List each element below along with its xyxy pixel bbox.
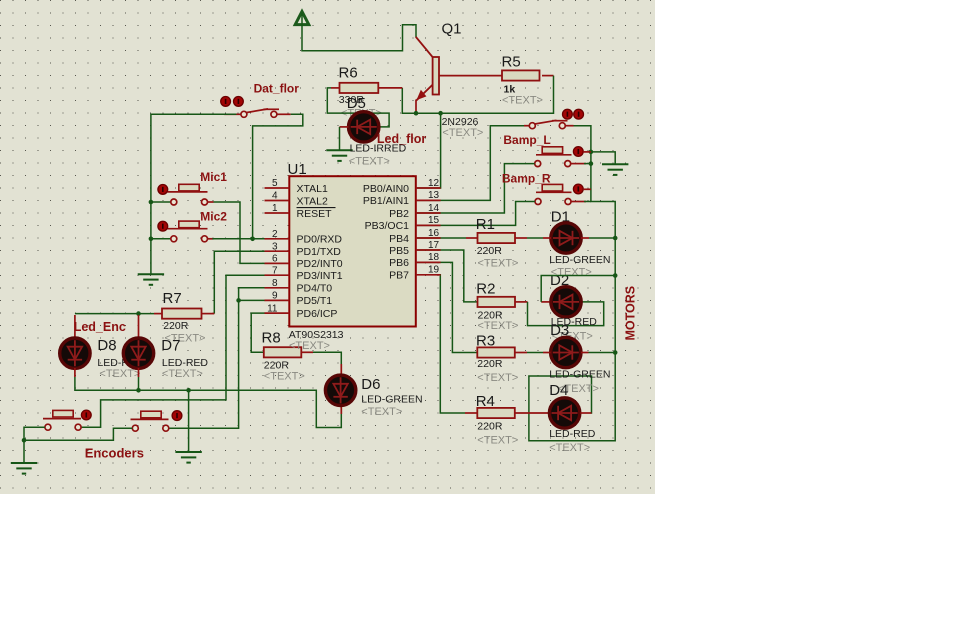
wire R3 to D3 anode (527, 352, 543, 354)
wire PB4 net: pin 16 to R1 (417, 237, 466, 239)
svg-text:PD4/T0: PD4/T0 (297, 283, 333, 295)
svg-text:16: 16 (428, 228, 440, 239)
junction encoder ground (22, 438, 27, 443)
LED D3 (LED-GREEN) (551, 337, 581, 367)
wire ground stub mid (188, 390, 190, 452)
LED D1 (LED-GREEN) (551, 223, 581, 253)
toggle buttons SW1 (221, 97, 231, 107)
wire R1 to D1 anode (527, 237, 543, 239)
svg-text:LED-GREEN: LED-GREEN (361, 393, 422, 405)
svg-text:D6: D6 (361, 376, 380, 393)
wire R7 left to D7/D8 anodes (75, 313, 154, 315)
wire PB3 net: Bamp_R to pin 15 (417, 202, 535, 226)
ground below Mic column (138, 273, 164, 275)
svg-text:Bamp_L: Bamp_L (503, 133, 550, 147)
wire D2 cathode to rail (541, 276, 615, 302)
switch SW2 (Led_flor sense) (524, 125, 529, 127)
wire D3 cathode to rail (589, 352, 616, 354)
push button Bamp_L (542, 147, 562, 154)
svg-text:220R: 220R (477, 420, 503, 432)
wire D8 anode riser (74, 315, 76, 339)
switch SW1 (Dat_flor) (224, 113, 241, 115)
svg-text:PD3/INT1: PD3/INT1 (297, 270, 343, 282)
wire GND net left: switch left down to ground (151, 114, 237, 274)
wire PD2 net: Mic1 to pin 6 (208, 201, 214, 203)
svg-text:2: 2 (272, 229, 278, 240)
wire cathode rail: D8/D7 to D6 bottom (74, 368, 76, 377)
wire PB5 net: pin 17 to R2 (417, 250, 478, 302)
wire encoder2 to ground (24, 428, 132, 440)
svg-text:R2: R2 (476, 280, 495, 297)
push button Bamp_R (542, 184, 562, 191)
svg-text:8: 8 (272, 278, 278, 289)
svg-text:D7: D7 (161, 337, 180, 354)
svg-text:6: 6 (272, 254, 278, 265)
ground bottom-left (11, 462, 37, 464)
wire PD4 net: pin 8 to encoder button 2 (169, 288, 265, 428)
svg-text:R1: R1 (476, 216, 495, 233)
svg-text:1: 1 (272, 203, 278, 214)
wire PB1 net: switch to pin 13 (417, 126, 524, 201)
svg-text:13: 13 (428, 190, 440, 201)
svg-text:<TEXT>: <TEXT> (477, 372, 518, 384)
junction rail/ground mid (186, 388, 191, 393)
LED D6 (LED-GREEN) (325, 375, 355, 405)
svg-text:XTAL2: XTAL2 (297, 195, 328, 207)
transistor Q1 (2N2926 NPN, mirrored) (433, 57, 439, 95)
wire PB6 net: pin 18 to R3 (417, 262, 477, 352)
junction D7 anode (136, 311, 141, 316)
svg-text:D5: D5 (347, 95, 366, 112)
svg-text:LED-RED: LED-RED (549, 428, 596, 440)
svg-text:<TEXT>: <TEXT> (361, 406, 402, 418)
svg-text:PB0/AIN0: PB0/AIN0 (363, 183, 409, 195)
svg-text:<TEXT>: <TEXT> (502, 94, 543, 106)
link BampL toggle to rail (583, 151, 591, 153)
wire VCC: arrow to Q1 collector (302, 13, 416, 51)
svg-text:<TEXT>: <TEXT> (349, 156, 390, 168)
svg-text:<TEXT>: <TEXT> (264, 370, 305, 382)
svg-text:7: 7 (272, 265, 278, 276)
svg-text:PB6: PB6 (389, 257, 409, 269)
svg-text:220R: 220R (477, 358, 503, 370)
wire R8 to D6 anode (313, 352, 341, 364)
svg-text:<TEXT>: <TEXT> (478, 320, 519, 332)
resistor R5 (502, 70, 540, 80)
svg-text:<TEXT>: <TEXT> (442, 127, 483, 139)
power terminal (VCC arrow) (295, 12, 309, 25)
LED D8 (LED-RED) (60, 338, 90, 368)
svg-text:R4: R4 (476, 393, 495, 410)
ground below D5 (326, 149, 352, 151)
junction Dat/Mic2 row (250, 237, 255, 242)
svg-text:Dat_flor: Dat_flor (254, 81, 300, 95)
svg-text:220R: 220R (163, 320, 189, 332)
resistor R8 (264, 347, 302, 357)
resistor R2 (478, 297, 516, 307)
svg-text:19: 19 (428, 265, 440, 276)
wire D7 anode riser (138, 315, 140, 339)
svg-text:PB2: PB2 (389, 208, 409, 220)
svg-text:Mic2: Mic2 (200, 210, 227, 224)
IC U1 (AT90S2313) (289, 176, 416, 326)
wire D7 cathode drop (138, 368, 140, 377)
svg-text:5: 5 (272, 178, 278, 189)
wire Mic1 left branch (151, 201, 171, 203)
svg-text:PB1/AIN1: PB1/AIN1 (363, 195, 409, 207)
LED D5 (LED-IRRED) (349, 112, 379, 142)
wire PD0 net: switch right to pin 2 (253, 114, 303, 239)
svg-text:PB3/OC1: PB3/OC1 (365, 220, 410, 232)
svg-text:3: 3 (272, 241, 278, 252)
svg-text:Q1: Q1 (442, 21, 462, 38)
svg-text:<TEXT>: <TEXT> (289, 340, 330, 352)
wire PD1 net: R7 riser to pin 3 (214, 251, 265, 313)
svg-text:PB4: PB4 (389, 233, 409, 245)
LED D2 (LED-RED) (551, 287, 581, 317)
wire D5 cathode to ground (339, 127, 341, 150)
resistor R6 (340, 83, 379, 93)
svg-text:<TEXT>: <TEXT> (477, 434, 518, 446)
svg-text:PD1/TXD: PD1/TXD (297, 246, 342, 258)
wire BampR right to rail (571, 201, 586, 203)
resistor R3 (477, 347, 515, 357)
svg-text:<TEXT>: <TEXT> (478, 258, 519, 270)
LED D4 (LED-RED) (549, 398, 579, 428)
svg-text:15: 15 (428, 215, 440, 226)
svg-text:R6: R6 (339, 65, 358, 82)
svg-text:R3: R3 (476, 332, 495, 349)
svg-text:XTAL1: XTAL1 (297, 183, 328, 195)
wire GND rail (right): switch right to D4 loop (529, 126, 615, 441)
svg-text:D8: D8 (97, 337, 116, 354)
junction D7 cathode (136, 388, 141, 393)
svg-text:LED-GREEN: LED-GREEN (549, 254, 610, 266)
wire ground stub top-right (591, 152, 615, 164)
svg-text:LED-IRRED: LED-IRRED (350, 142, 407, 154)
wire D1 cathode to rail (589, 237, 615, 239)
resistor R1 (478, 233, 516, 243)
push button Mic1 (179, 184, 199, 191)
svg-text:PD0/RXD: PD0/RXD (297, 234, 343, 246)
svg-text:LED-GREEN: LED-GREEN (549, 369, 610, 381)
junction emitter/rail (414, 111, 419, 116)
svg-text:RESET: RESET (297, 208, 333, 220)
svg-text:18: 18 (428, 252, 440, 263)
svg-text:PD2/INT0: PD2/INT0 (297, 258, 343, 270)
push button Mic2 (179, 221, 199, 228)
wire PB0 net: R5 right drop / emitter rail / R6 feed (402, 76, 553, 114)
svg-text:R8: R8 (262, 329, 281, 346)
wire PD3 net: pin 7 to encoder button 1 (81, 275, 265, 427)
svg-text:PB7: PB7 (389, 270, 409, 282)
junction rail/ground stub (589, 150, 594, 155)
svg-text:PD6/ICP: PD6/ICP (297, 308, 338, 320)
svg-text:14: 14 (428, 203, 440, 214)
svg-text:11: 11 (267, 303, 278, 314)
resistor R7 (162, 309, 202, 319)
svg-text:R7: R7 (163, 290, 182, 307)
svg-text:220R: 220R (477, 245, 503, 257)
wire BampL right to rail (571, 163, 586, 165)
wire PD5 net: pin 9 branch (239, 299, 265, 301)
junction pin12 riser (438, 111, 443, 116)
junction pin9/pin8 riser (236, 298, 241, 303)
svg-text:12: 12 (428, 178, 440, 189)
junction D2/rail (613, 273, 618, 278)
svg-text:17: 17 (428, 240, 440, 251)
svg-text:PD5/T1: PD5/T1 (297, 295, 333, 307)
junction Mic2 row (149, 237, 154, 242)
svg-text:R5: R5 (502, 54, 521, 71)
svg-text:Encoders: Encoders (85, 446, 144, 461)
svg-text:Led_Enc: Led_Enc (74, 320, 126, 334)
wire PD0 net: Mic2 row to pin 2 (208, 238, 214, 240)
wire PB0 net: riser to pin 12 (417, 113, 441, 188)
ground top-right (602, 163, 628, 165)
resistor R4 (477, 408, 515, 418)
svg-text:<TEXT>: <TEXT> (99, 368, 140, 380)
svg-text:PB5: PB5 (389, 245, 409, 257)
ground below encoders right (175, 451, 201, 453)
junction D1/rail (613, 236, 618, 241)
wire PB7 net: pin 19 to R4 (417, 275, 465, 413)
wire Mic2 left branch (151, 238, 171, 240)
wire R2 to D2 anode (wrap under) (528, 302, 604, 326)
toggle buttons SW2 (563, 109, 573, 119)
junction rail/BampL (589, 161, 594, 166)
link BampR toggle to rail (583, 188, 591, 190)
wire PD6 net: pin 11 to R8 (251, 313, 265, 352)
svg-text:Mic1: Mic1 (200, 170, 227, 184)
junction D3/rail (613, 350, 618, 355)
svg-text:U1: U1 (288, 161, 307, 178)
svg-text:<TEXT>: <TEXT> (162, 368, 203, 380)
push button encoder 1 (53, 410, 73, 417)
wire encoder ground net (24, 427, 45, 463)
LED D7 (LED-RED) (123, 338, 153, 368)
push button encoder 2 (141, 411, 161, 418)
svg-text:Bamp_R: Bamp_R (502, 171, 551, 185)
junction Mic1 row (149, 200, 154, 205)
svg-text:9: 9 (272, 291, 278, 302)
wire R6 left to D5 anode (327, 88, 389, 127)
svg-text:MOTORS: MOTORS (624, 286, 638, 341)
wire PB2 net: Bamp_L to pin 14 (417, 164, 535, 213)
svg-text:4: 4 (272, 191, 278, 202)
svg-text:<TEXT>: <TEXT> (549, 442, 590, 454)
